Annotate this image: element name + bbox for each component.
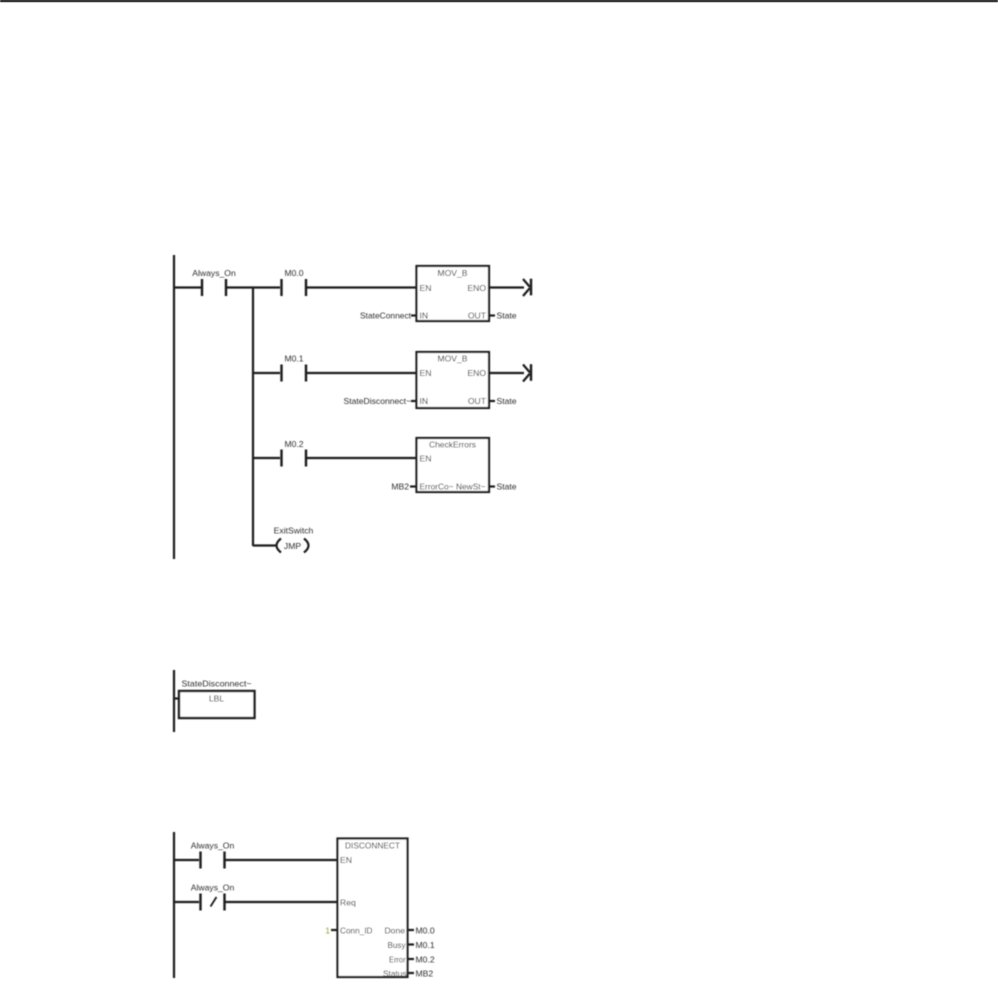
open arrow terminator (2) [523, 364, 531, 381]
svg-text:ExitSwitch: ExitSwitch [274, 526, 314, 536]
svg-text:M0.2: M0.2 [284, 439, 303, 449]
power rail (network 2) [173, 670, 175, 732]
wire rung1 rail to contact Always_On [173, 286, 201, 288]
svg-text:StateDisconnect~: StateDisconnect~ [344, 396, 412, 406]
contact Always_On (network 1) [192, 268, 236, 296]
svg-text:Busy: Busy [388, 940, 407, 950]
wire rung3 branch to contact M0.2 [253, 457, 280, 459]
svg-text:MB2: MB2 [416, 968, 434, 978]
svg-text:State: State [497, 396, 517, 406]
svg-text:M0.1: M0.1 [416, 940, 435, 950]
svg-text:M0.0: M0.0 [284, 268, 303, 278]
wire ENO (1) to arrow [489, 286, 524, 288]
wire rung2 branch to contact M0.1 [253, 372, 280, 374]
operand M0.1 at Busy pin [408, 940, 435, 950]
function block CheckErrors [417, 438, 490, 492]
svg-text:IN: IN [420, 311, 429, 321]
power rail (network 3) [173, 832, 175, 978]
wire M0.2 to CheckErrors EN [307, 457, 417, 459]
contact M0.2 [282, 439, 307, 467]
operand StateConnect at IN pin [360, 311, 416, 321]
open arrow terminator (1) [523, 279, 531, 296]
power rail (network 1) [173, 255, 175, 559]
svg-text:Error: Error [389, 954, 406, 964]
wire M0.1 to MOV_B (2) EN [307, 372, 417, 374]
svg-text:State: State [497, 311, 517, 321]
svg-text:IN: IN [420, 396, 429, 406]
svg-text:OUT: OUT [468, 396, 487, 406]
svg-text:ENO: ENO [467, 368, 486, 378]
wire rail to LBL box [174, 697, 179, 699]
operand MB2 at Status pin [408, 968, 433, 978]
wire rail to NC contact Always_On (Req rung) [173, 901, 199, 903]
contact M0.0 [282, 268, 307, 296]
operand State at OUT pin (2) [489, 396, 517, 406]
wire NC contact to DISCONNECT Req [226, 901, 339, 903]
svg-text:Conn_ID: Conn_ID [340, 925, 373, 935]
operand State at OUT pin (1) [489, 311, 517, 321]
svg-text:CheckErrors: CheckErrors [429, 440, 476, 450]
constant 1 at Conn_ID pin [325, 925, 337, 935]
wire ENO (2) to arrow [489, 372, 524, 374]
wire branch to JMP coil [253, 544, 276, 546]
svg-text:Status: Status [383, 968, 407, 978]
svg-text:Always_On: Always_On [192, 268, 236, 278]
operand M0.0 at Done pin [408, 925, 435, 935]
svg-text:Always_On: Always_On [191, 841, 235, 851]
svg-text:EN: EN [420, 368, 432, 378]
wire contact to DISCONNECT EN [226, 859, 339, 861]
wire rail to contact Always_On (EN rung) [173, 859, 199, 861]
contact Always_On (EN rung) [191, 841, 235, 869]
svg-text:Done: Done [384, 925, 405, 935]
svg-text:JMP: JMP [284, 541, 301, 551]
svg-text:OUT: OUT [468, 311, 487, 321]
svg-text:MOV_B: MOV_B [437, 268, 467, 278]
svg-text:M0.2: M0.2 [416, 954, 435, 964]
label box LBL [179, 691, 255, 718]
svg-text:StateConnect: StateConnect [360, 311, 412, 321]
operand M0.2 at Error pin [408, 954, 435, 964]
svg-text:ErrorCo~: ErrorCo~ [420, 482, 454, 492]
svg-text:EN: EN [420, 283, 432, 293]
svg-text:Always_On: Always_On [191, 883, 235, 893]
function block MOV_B (1) [417, 266, 490, 321]
svg-text:EN: EN [420, 454, 432, 464]
svg-text:MOV_B: MOV_B [437, 354, 467, 364]
coil JMP (ExitSwitch) [274, 526, 314, 553]
branch vertical wire [252, 288, 254, 547]
function block MOV_B (2) [417, 352, 490, 408]
svg-text:State: State [497, 482, 517, 492]
svg-text:StateDisconnect~: StateDisconnect~ [182, 679, 252, 689]
svg-text:MB2: MB2 [391, 482, 409, 492]
svg-text:EN: EN [340, 855, 352, 865]
svg-text:ENO: ENO [467, 283, 486, 293]
operand MB2 at ErrorCo~ pin [391, 482, 416, 492]
svg-text:LBL: LBL [209, 694, 225, 704]
operand State at NewSt~ pin [489, 482, 517, 492]
function block DISCONNECT [338, 839, 408, 979]
svg-text:M0.0: M0.0 [416, 925, 435, 935]
svg-text:DISCONNECT: DISCONNECT [345, 841, 401, 851]
svg-text:Req: Req [340, 897, 356, 907]
wire M0.0 to MOV_B (1) EN [307, 286, 417, 288]
contact M0.1 [282, 354, 307, 382]
NC contact Always_On (Req rung) [191, 883, 235, 911]
svg-text:1: 1 [325, 925, 330, 935]
wire rung1 contact to contact M0.0 (through branch node) [227, 286, 280, 288]
top page border [0, 0, 998, 2]
svg-text:M0.1: M0.1 [284, 354, 303, 364]
operand StateDisconnect~ at IN pin [344, 396, 417, 406]
svg-text:NewSt~: NewSt~ [456, 482, 486, 492]
